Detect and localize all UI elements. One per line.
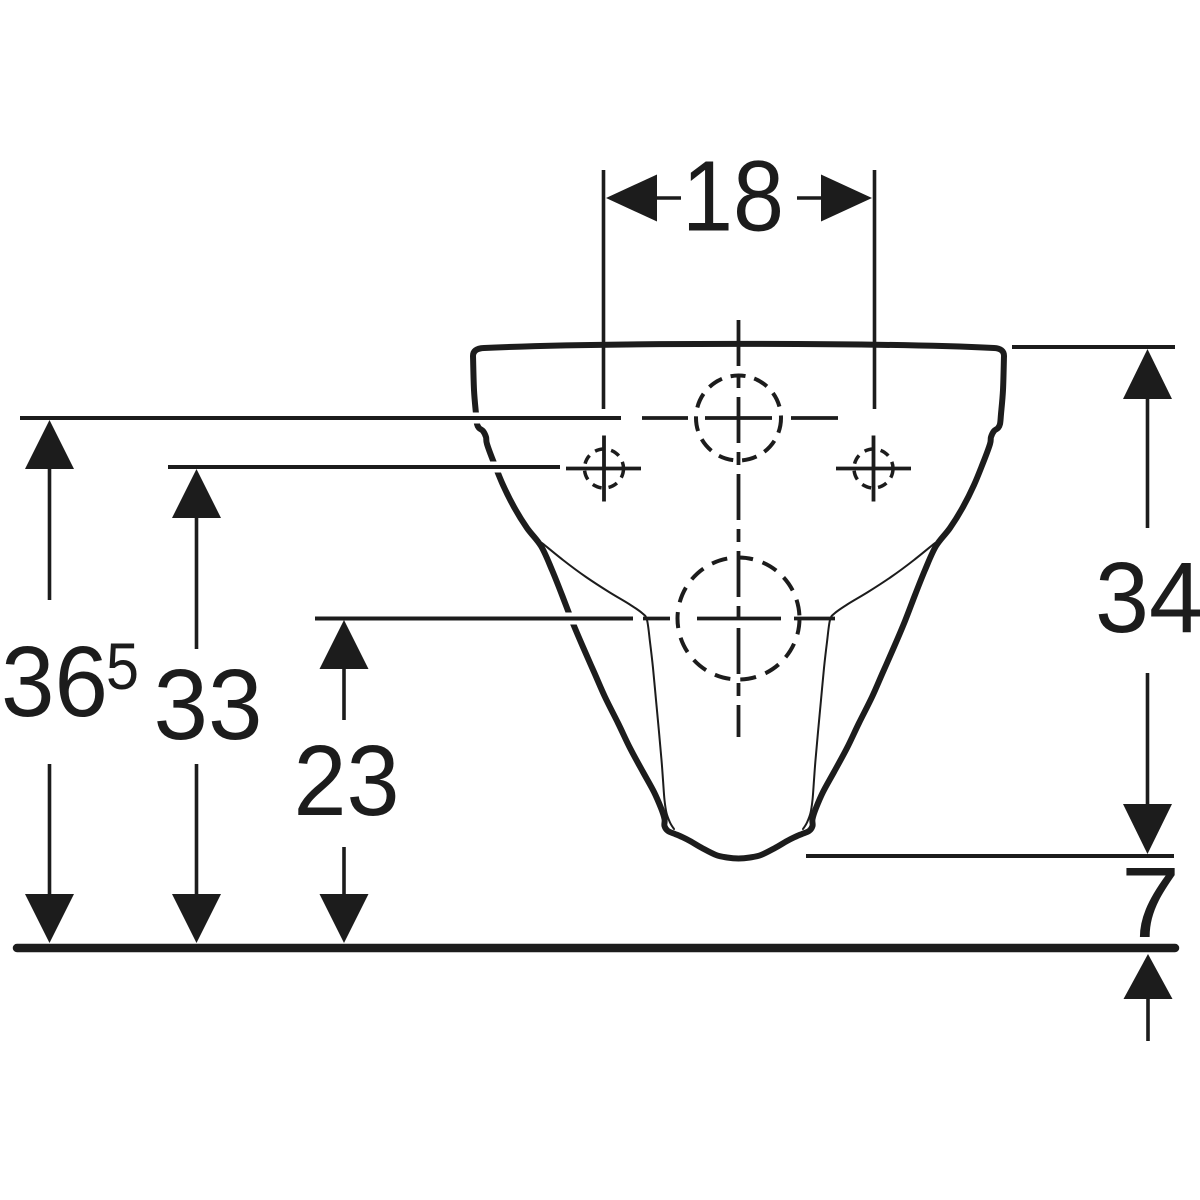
inner contour line left (thin) — [542, 543, 674, 829]
svg-text:18: 18 — [682, 141, 784, 253]
dim 33: vertical line with arrows — [172, 469, 221, 518]
svg-text:5: 5 — [106, 629, 139, 703]
body outline (toilet rear view, thick) — [473, 344, 1004, 859]
right fixing hole crosshair — [836, 436, 911, 502]
dim 23: vertical line with arrows — [320, 620, 369, 669]
svg-text:33: 33 — [154, 649, 263, 761]
dim 34: vertical line with arrows — [1123, 349, 1172, 399]
left fixing hole circle (dashed) — [585, 449, 624, 488]
dim 18: left arrow — [606, 175, 657, 222]
center vertical axis line (dash-dot) — [737, 320, 741, 737]
bottom outlet hole circle (dashed) — [678, 558, 800, 680]
leader line 23 level — [315, 617, 633, 621]
svg-text:7: 7 — [1121, 847, 1180, 959]
leader line 36.5 level — [20, 416, 621, 420]
outline break at 33 leader crossing — [486, 462, 512, 473]
left fixing hole crosshair — [566, 436, 641, 502]
inner contour line right (thin) — [803, 543, 935, 829]
floor line — [17, 944, 1175, 953]
top mounting hole circle (dashed) — [696, 376, 781, 461]
svg-text:23: 23 — [294, 725, 400, 837]
dim 18: left extension line — [602, 170, 606, 409]
dim 18: right arrow — [821, 175, 872, 222]
dim 7: up arrow below floor — [1124, 954, 1173, 999]
outline break at 36.5 leader crossing — [466, 413, 492, 424]
top hole horizontal centerline — [642, 416, 838, 420]
svg-text:36: 36 — [1, 626, 108, 738]
leader line bowl bottom (34 bottom / 7 top) — [806, 854, 1174, 858]
dim 36(5): vertical line with arrows — [25, 420, 74, 469]
leader line 33 level — [168, 465, 560, 469]
bottom hole horizontal centerline — [643, 617, 835, 621]
dim 18: right extension line — [873, 170, 877, 409]
right fixing hole circle (dashed) — [854, 449, 893, 488]
svg-text:34: 34 — [1095, 542, 1200, 654]
leader line top right (34 top) — [1012, 345, 1175, 349]
outline break at 23 leader crossing — [557, 613, 583, 625]
